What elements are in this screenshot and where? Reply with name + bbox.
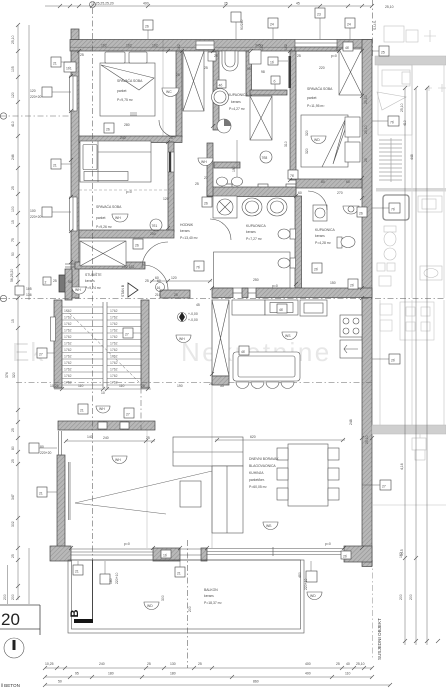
svg-text:140: 140	[87, 435, 93, 439]
svg-text:4,16: 4,16	[400, 463, 404, 470]
svg-text:40: 40	[346, 662, 350, 666]
axis dash vertical C	[187, 540, 189, 668]
svg-text:1762: 1762	[110, 348, 118, 352]
box 21 landing	[78, 404, 88, 414]
corridor low wall stub	[214, 162, 240, 168]
left box 27	[37, 348, 54, 358]
bottom wall pier 2	[201, 548, 207, 561]
sliding door swing lines	[75, 468, 225, 514]
svg-text:1б2: 1б2	[177, 44, 181, 50]
svg-text:WS: WS	[285, 334, 291, 338]
svg-text:347: 347	[11, 494, 15, 500]
svg-text:1762: 1762	[64, 322, 72, 326]
svg-text:BLAGOVAONICA: BLAGOVAONICA	[249, 464, 276, 468]
bedroom2 WD disc	[311, 136, 326, 144]
living room label	[249, 457, 279, 489]
dining chairs left	[277, 448, 288, 500]
svg-text:25,10: 25,10	[11, 35, 15, 44]
bedroom3 p=0 dashed	[79, 190, 172, 194]
svg-text:keram.: keram.	[231, 100, 241, 104]
svg-text:WH: WH	[99, 407, 105, 411]
neighbor bed	[377, 70, 410, 110]
svg-text:25: 25	[145, 279, 149, 283]
corridor label	[180, 223, 198, 240]
interior wall bedroom2 left	[290, 51, 296, 180]
interior wall corridor left	[207, 143, 213, 196]
svg-text:SUSJEDNI OBJEKT: SUSJEDNI OBJEKT	[377, 618, 382, 660]
svg-text:21: 21	[80, 409, 84, 413]
svg-text:400: 400	[305, 662, 311, 666]
bottom wall box corner right	[341, 551, 351, 559]
svg-text:100: 100	[30, 209, 36, 213]
dining dim 620	[215, 435, 345, 442]
svg-text:BALKON: BALKON	[204, 588, 218, 592]
box 27 stairs	[123, 328, 133, 338]
svg-text:190: 190	[232, 166, 236, 172]
box 7b corridor	[194, 261, 204, 271]
neighbor floor band	[376, 188, 446, 192]
svg-text:27: 27	[125, 333, 129, 337]
svg-text:25: 25	[174, 293, 178, 297]
neighbor small boxes below band	[412, 434, 426, 460]
svg-text:1762: 1762	[110, 329, 118, 333]
wardrobe hall tall	[183, 51, 204, 111]
svg-text:21: 21	[39, 492, 43, 496]
box 26 corridor	[202, 197, 212, 207]
right box 25	[372, 46, 389, 56]
wardrobe bedroom3	[80, 241, 126, 266]
svg-text:16,25,25,25,20: 16,25,25,25,20	[91, 2, 114, 6]
svg-text:220+10: 220+10	[304, 578, 308, 590]
staircase tread numbers	[64, 309, 118, 385]
svg-text:1762: 1762	[110, 368, 118, 372]
svg-text:21: 21	[75, 570, 79, 574]
pier left hatched	[59, 275, 72, 292]
svg-text:B: B	[69, 610, 81, 618]
svg-text:WD: WD	[147, 604, 153, 608]
svg-text:21: 21	[53, 164, 57, 168]
balcony outline	[68, 560, 304, 633]
svg-text:1762: 1762	[110, 322, 118, 326]
svg-text:p=0: p=0	[331, 54, 337, 58]
neighbor box 7b top	[372, 116, 399, 126]
bottom wall box pier label	[161, 550, 171, 558]
svg-text:KUPAONICA: KUPAONICA	[315, 228, 335, 232]
svg-text:25: 25	[224, 2, 228, 6]
svg-text:10,25: 10,25	[50, 384, 59, 388]
svg-text:parket: parket	[96, 216, 105, 220]
door leaf dark bar	[289, 56, 292, 88]
living WB disc low	[263, 522, 278, 530]
right wall tick cluster	[360, 436, 374, 440]
bedroom2 bed	[301, 115, 348, 167]
basins above bath wall	[217, 177, 243, 186]
svg-text:4б: 4б	[219, 84, 223, 88]
svg-text:KUPAONICA: KUPAONICA	[246, 224, 266, 228]
svg-text:P=4,27 m²: P=4,27 m²	[229, 107, 246, 111]
bedroom2 label	[307, 86, 333, 108]
axis dash horizontal	[0, 298, 446, 300]
svg-text:110: 110	[78, 384, 84, 388]
svg-text:SPAVAĆA SOBA: SPAVAĆA SOBA	[96, 204, 122, 209]
svg-text:56,25,20: 56,25,20	[10, 269, 14, 282]
kitchen WM mark	[282, 332, 297, 340]
interior wall bath1 left	[213, 51, 219, 130]
bottom dim row3	[43, 683, 392, 687]
svg-text:448: 448	[410, 154, 414, 160]
neighbor top wall band	[375, 56, 446, 65]
svg-text:P=60,05 m²: P=60,05 m²	[249, 485, 267, 489]
svg-text:15: 15	[11, 319, 15, 323]
entry hall small dims	[53, 279, 161, 284]
neighbor toilet	[384, 226, 396, 246]
interior wall bath divider vertical	[295, 196, 302, 288]
neighbor lower verticals	[380, 300, 444, 425]
svg-text:21: 21	[177, 572, 181, 576]
landing fixtures	[96, 406, 110, 413]
staircase treads right flight	[107, 307, 141, 385]
kitchen stove	[340, 315, 362, 337]
bedroom3 label	[96, 204, 122, 229]
outer wall top band	[70, 29, 372, 51]
svg-text:27: 27	[39, 353, 43, 357]
svg-text:+-0,00: +-0,00	[188, 312, 198, 316]
kitchen box 4b	[277, 304, 287, 313]
svg-text:WH: WH	[201, 160, 207, 164]
neighbor bidet	[384, 248, 396, 260]
small box left entry	[43, 277, 51, 285]
svg-text:SPAVAĆA SOBA: SPAVAĆA SOBA	[117, 78, 143, 83]
svg-text:S.U.S.: S.U.S.	[373, 20, 377, 30]
interior wall bedroom2 bottom	[296, 179, 362, 188]
bottom wall door 2	[180, 549, 201, 555]
svg-text:26: 26	[204, 202, 208, 206]
svg-text:200: 200	[409, 594, 413, 600]
north circle	[4, 638, 24, 658]
svg-text:95: 95	[247, 67, 251, 71]
svg-text:860: 860	[253, 680, 259, 684]
svg-text:1762: 1762	[110, 355, 118, 359]
neighbor basin	[420, 266, 442, 280]
bottom dim row1	[43, 666, 374, 670]
svg-text:80: 80	[321, 180, 325, 184]
neighbor box 2b low	[372, 354, 400, 364]
stair shaft right wall	[141, 300, 149, 388]
svg-text:50: 50	[68, 280, 72, 284]
svg-text:2б: 2б	[343, 555, 347, 559]
svg-text:WD: WD	[310, 594, 316, 598]
bottom dim row2 numbers	[75, 672, 351, 676]
entrance marker STAN B	[121, 283, 138, 297]
bedroom2 nightstands	[345, 117, 360, 162]
staircase walk line	[66, 310, 140, 383]
bedroom2 wardrobe corner	[339, 49, 362, 95]
door arc bedroom3	[142, 242, 168, 268]
bathroom mid bidet	[278, 258, 296, 268]
outer wall left upper	[70, 51, 80, 298]
svg-text:1б2: 1б2	[284, 44, 288, 50]
stair hall texts	[85, 272, 102, 290]
outer wall left lower	[57, 431, 70, 550]
svg-text:keram.: keram.	[85, 279, 95, 283]
svg-text:120: 120	[30, 89, 36, 93]
kitchen dishwasher	[340, 340, 362, 358]
svg-text:26: 26	[106, 128, 110, 132]
svg-text:25,10: 25,10	[364, 125, 368, 134]
axis dash vertical A	[90, 2, 96, 561]
svg-text:1б1: 1б1	[66, 67, 72, 71]
svg-text:25,10: 25,10	[400, 103, 404, 112]
bathroom mid label	[246, 224, 266, 241]
svg-text:WC: WC	[166, 90, 172, 94]
neighbor bedroom outline	[378, 65, 444, 298]
svg-text:105: 105	[26, 287, 32, 291]
balcony label	[204, 588, 222, 605]
mid dims	[163, 182, 343, 285]
svg-text:136: 136	[26, 293, 32, 297]
svg-text:WH: WH	[179, 337, 185, 341]
window label box on wall	[64, 62, 76, 72]
svg-text:1762: 1762	[64, 309, 72, 313]
svg-text:KUPAONICA: KUPAONICA	[228, 93, 248, 97]
svg-text:p=0: p=0	[126, 190, 132, 194]
svg-text:110: 110	[345, 672, 351, 676]
svg-text:4б: 4б	[241, 350, 245, 354]
bathroom2 label	[315, 228, 335, 245]
svg-text:1762: 1762	[110, 374, 118, 378]
corridor door circle 7b8	[260, 151, 272, 163]
svg-text:26: 26	[135, 244, 139, 248]
top box 186	[231, 12, 244, 39]
bottom wall corner left	[50, 546, 71, 561]
svg-text:23: 23	[317, 13, 321, 17]
corridor closet X	[250, 96, 272, 140]
corridor dim 190	[232, 140, 237, 187]
svg-text:SPAVAĆA SOBA: SPAVAĆA SOBA	[307, 86, 333, 91]
dim 200 pair above 20	[3, 565, 8, 604]
svg-text:25: 25	[176, 73, 180, 77]
svg-text:25,10: 25,10	[385, 5, 394, 9]
svg-text:248: 248	[349, 419, 353, 425]
axis circle left mid	[0, 295, 6, 301]
sofa horizontal	[173, 437, 243, 466]
svg-text:210: 210	[155, 293, 161, 297]
svg-text:1762: 1762	[64, 374, 72, 378]
box 26 bath2 right	[357, 207, 367, 217]
bathroom1 washer	[249, 50, 261, 64]
svg-text:keram.: keram.	[246, 230, 256, 234]
svg-text:180: 180	[170, 672, 176, 676]
axis dash vertical D lower	[372, 560, 374, 660]
svg-text:25: 25	[11, 428, 15, 432]
neighbor kitchen rects	[418, 196, 442, 212]
svg-text:25,10: 25,10	[364, 95, 368, 104]
door arc bedroom1	[159, 120, 176, 137]
wall stub left of stair hall	[65, 269, 72, 300]
svg-text:310: 310	[284, 141, 288, 147]
kitchen counter sink unit	[300, 300, 327, 316]
neighbor shower	[383, 195, 409, 220]
bathroom2 washer	[313, 205, 327, 221]
svg-text:25: 25	[364, 158, 368, 162]
svg-text:25: 25	[336, 662, 340, 666]
bottom wall window square left	[100, 561, 119, 584]
svg-text:27: 27	[382, 485, 386, 489]
svg-text:1762: 1762	[110, 342, 118, 346]
sparse 25 labels	[80, 53, 301, 386]
svg-text:DNEVNI BORAVAK: DNEVNI BORAVAK	[249, 457, 279, 461]
svg-text:75: 75	[11, 238, 15, 242]
svg-text:parket: parket	[117, 89, 126, 93]
bathroom mid basins	[242, 198, 287, 216]
svg-text:1762: 1762	[110, 309, 118, 313]
svg-text:1б: 1б	[163, 554, 167, 558]
svg-text:WD: WD	[314, 138, 320, 142]
bedroom3 wash half-disc	[112, 214, 128, 222]
svg-text:STAN B: STAN B	[121, 284, 125, 297]
watermark	[12, 337, 332, 367]
svg-text:25: 25	[297, 54, 301, 58]
svg-text:21: 21	[53, 62, 57, 66]
svg-text:P=7,27 m²: P=7,27 m²	[246, 237, 263, 241]
svg-text:200: 200	[3, 594, 7, 600]
elevation marker	[178, 312, 198, 322]
svg-text:25: 25	[11, 459, 15, 463]
svg-text:16: 16	[157, 286, 161, 290]
svg-text:P=18,37 m²: P=18,37 m²	[204, 601, 222, 605]
svg-text:200: 200	[188, 606, 192, 612]
svg-text:WБ: WБ	[266, 524, 272, 528]
svg-text:25: 25	[209, 382, 213, 386]
kitchen counter left	[232, 300, 298, 315]
washbasin stair hall	[72, 287, 86, 294]
svg-text:25,10: 25,10	[356, 662, 365, 666]
svg-text:374: 374	[5, 372, 9, 378]
bottom dim row2	[43, 675, 374, 679]
svg-text:50: 50	[58, 680, 62, 684]
svg-text:1762: 1762	[64, 316, 72, 320]
svg-text:25: 25	[80, 53, 84, 57]
staircase mid stringer	[103, 302, 107, 388]
svg-text:1б: 1б	[270, 61, 274, 65]
svg-text:2: 2	[45, 281, 47, 285]
svg-text:400: 400	[305, 672, 311, 676]
top window bedroom2	[295, 40, 337, 52]
axis dash horizontal lower	[16, 382, 372, 384]
svg-text:4б0: 4б0	[298, 572, 302, 578]
svg-text:120: 120	[11, 92, 15, 98]
svg-text:‖ BETON: ‖ BETON	[1, 683, 20, 688]
bathroom1 label top	[228, 93, 248, 111]
living WH mark 2	[112, 456, 127, 464]
svg-text:25: 25	[11, 186, 15, 190]
svg-text:10,25: 10,25	[45, 662, 54, 666]
stairs dim line	[50, 384, 151, 395]
p=0 labels	[124, 54, 337, 546]
door circle 16/210	[155, 283, 165, 298]
top band small dims	[101, 44, 261, 48]
svg-text:25: 25	[53, 279, 57, 283]
bathroom1 tub	[222, 51, 238, 71]
corridor sink	[198, 158, 213, 166]
interior wall living top	[212, 288, 372, 298]
living dim 240-25	[64, 436, 155, 443]
svg-text:320: 320	[305, 148, 309, 154]
svg-text:95: 95	[75, 672, 79, 676]
svg-text:302: 302	[11, 521, 15, 527]
svg-text:p=0: p=0	[272, 284, 278, 288]
svg-text:б: б	[274, 80, 276, 84]
svg-text:10: 10	[101, 391, 105, 395]
svg-text:P=9,75 m²: P=9,75 m²	[117, 98, 134, 102]
svg-text:200: 200	[11, 594, 15, 600]
svg-text:7б1: 7б1	[152, 224, 158, 228]
box 21 bed3 wall	[51, 159, 71, 169]
top box 23	[315, 8, 325, 39]
top box 24 b	[345, 18, 355, 39]
sofa vertical	[212, 466, 243, 533]
right dim lines vertical	[403, 86, 440, 645]
corridor door circle	[150, 219, 162, 236]
svg-text:2б: 2б	[391, 359, 395, 363]
svg-text:50: 50	[11, 252, 15, 256]
svg-text:1б2: 1б2	[152, 44, 158, 48]
interior wall bedroom3 bottom	[79, 230, 174, 238]
svg-text:620: 620	[250, 435, 256, 439]
svg-text:25: 25	[204, 66, 208, 70]
living thin boundary lines	[147, 298, 212, 548]
top dim numbers	[91, 2, 394, 10]
vestibule box b	[271, 76, 280, 95]
svg-text:80: 80	[40, 445, 44, 449]
svg-text:25: 25	[214, 54, 218, 58]
svg-text:25: 25	[146, 436, 150, 440]
svg-text:45: 45	[196, 303, 200, 307]
interior wall bedroom3 right	[168, 142, 174, 232]
svg-text:400: 400	[143, 2, 149, 6]
svg-text:1762: 1762	[64, 335, 72, 339]
svg-text:parket: parket	[307, 96, 316, 100]
svg-text:190: 190	[177, 384, 183, 388]
svg-text:120: 120	[171, 276, 177, 280]
bottom wall window 3	[207, 547, 344, 556]
svg-text:1762: 1762	[64, 342, 72, 346]
svg-text:1762: 1762	[64, 368, 72, 372]
svg-text:1б2: 1б2	[101, 44, 107, 48]
left box 80-220	[29, 443, 57, 455]
bottom wall corner right	[344, 546, 372, 562]
bottom wall window square right	[298, 561, 317, 590]
left box 21 top	[51, 57, 71, 67]
svg-text:4б: 4б	[279, 308, 283, 312]
svg-text:STUBIŠTE: STUBIŠTE	[85, 272, 102, 277]
svg-text:1762: 1762	[110, 361, 118, 365]
svg-text:200: 200	[150, 232, 156, 236]
box on wall top right	[343, 42, 353, 51]
door arc bath1	[210, 219, 231, 240]
door arc bath2	[308, 191, 327, 210]
svg-text:7б: 7б	[196, 266, 200, 270]
svg-text:60: 60	[155, 276, 159, 280]
svg-text:25: 25	[11, 554, 15, 558]
kitchen island	[233, 352, 300, 381]
svg-text:25,10: 25,10	[365, 435, 369, 444]
svg-text:98: 98	[261, 70, 265, 74]
svg-text:100: 100	[11, 206, 15, 212]
svg-text:27: 27	[126, 413, 130, 417]
svg-text:246: 246	[11, 154, 15, 160]
svg-text:P=13,40 m²: P=13,40 m²	[180, 236, 198, 240]
